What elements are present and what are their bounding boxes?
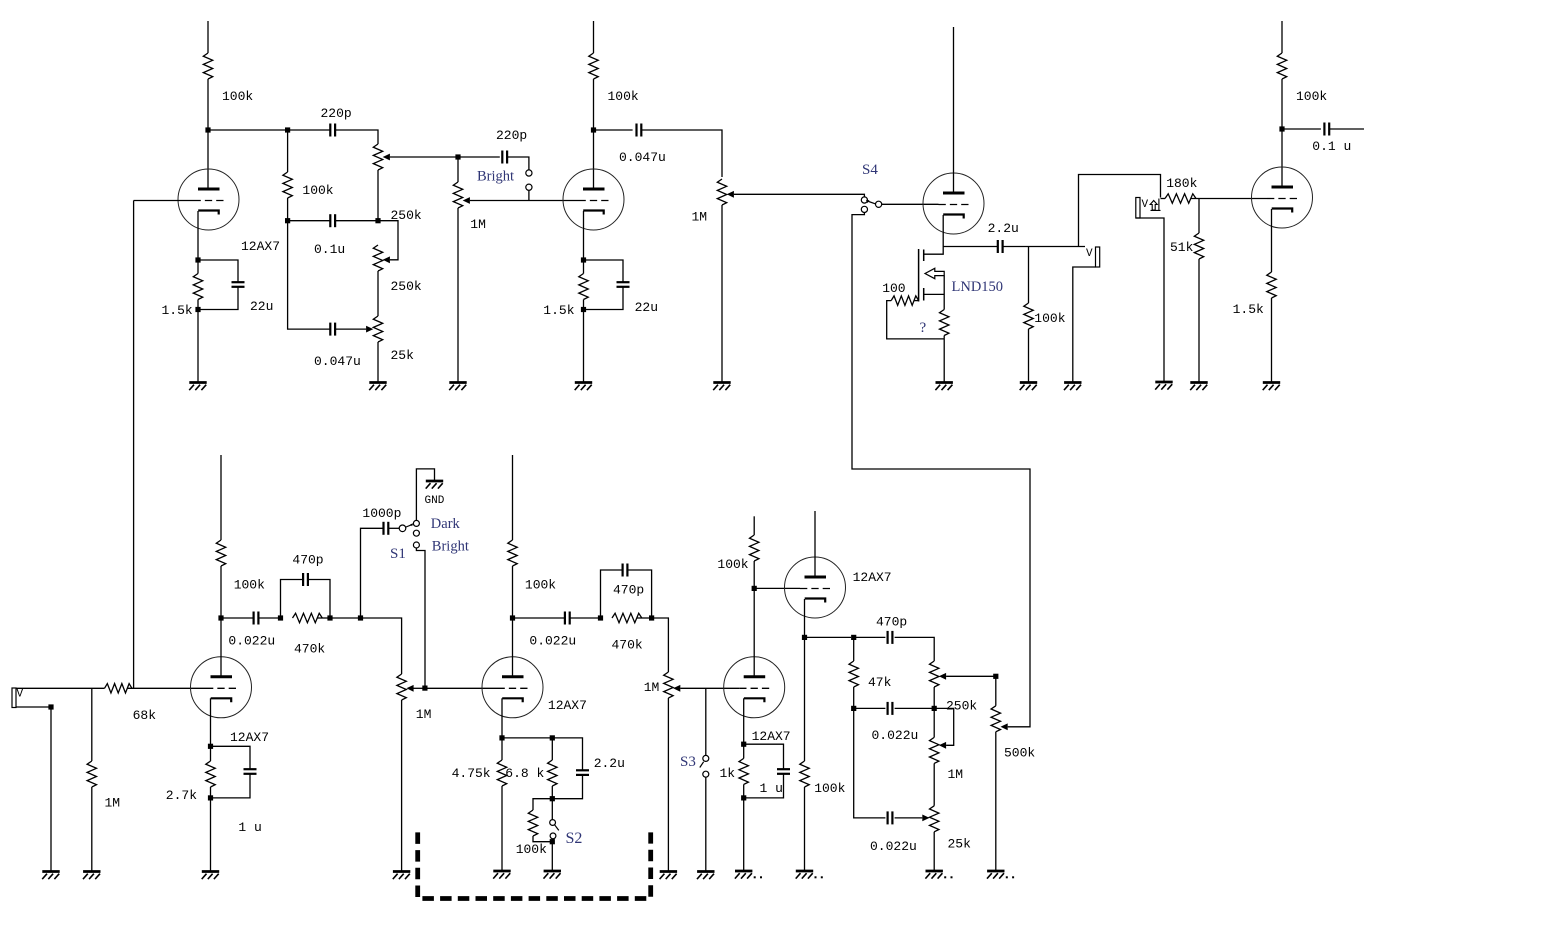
wire S3 top bbox=[705, 688, 707, 755]
potentiometer 25k tone mid bbox=[930, 806, 939, 832]
wire bbox=[943, 336, 945, 339]
node volume top bbox=[455, 154, 460, 159]
node slope bottom bbox=[285, 218, 290, 223]
wire 51k top bbox=[1198, 199, 1200, 234]
capacitor 0.1u bbox=[330, 214, 335, 227]
switch S4 throw upper bbox=[861, 197, 867, 203]
wire master to ground bbox=[721, 205, 723, 383]
wire to ground bbox=[91, 787, 93, 872]
resistor 100k follower load bbox=[800, 761, 809, 787]
ground input jack bbox=[42, 872, 60, 880]
wire bbox=[593, 79, 595, 130]
svg-text:Dark: Dark bbox=[431, 516, 461, 532]
wire to ground bbox=[551, 842, 553, 871]
node V4b plate bbox=[510, 615, 515, 620]
wire V2 cathode lead bbox=[942, 215, 944, 247]
svg-text:Bright: Bright bbox=[477, 169, 514, 185]
wiper arrow 1M tone bass bbox=[939, 742, 946, 749]
wire bbox=[895, 707, 935, 709]
wire to volume pot bbox=[361, 618, 402, 674]
triode V2 12AX7 bbox=[923, 173, 984, 234]
ground 1M V5a bbox=[660, 872, 678, 880]
ground tone stack bbox=[369, 383, 387, 391]
svg-text:250k: 250k bbox=[946, 699, 977, 714]
potentiometer 25k mid bbox=[373, 316, 382, 342]
capacitor 0.022u tone bass bbox=[888, 811, 893, 824]
wire bbox=[210, 787, 212, 798]
node tone top bbox=[851, 635, 856, 640]
switch S1 lever bbox=[410, 523, 413, 526]
ground return jack bbox=[1155, 382, 1173, 390]
capacitor 470p second bbox=[623, 564, 628, 577]
wire 1u top leg bbox=[211, 746, 251, 769]
wiper arrow 500k bbox=[1001, 723, 1008, 730]
svg-text:22u: 22u bbox=[250, 299, 273, 314]
ground S1 GND bbox=[426, 481, 444, 489]
svg-text:220p: 220p bbox=[321, 106, 352, 121]
svg-text:12AX7: 12AX7 bbox=[548, 698, 587, 713]
wire return jack sleeve bbox=[1136, 218, 1164, 382]
wiper arrow 1M V5a bbox=[673, 685, 680, 692]
potentiometer 1M volume ch1 bbox=[453, 182, 462, 208]
node S1 takeoff bbox=[358, 615, 363, 620]
svg-text:V: V bbox=[1086, 248, 1093, 260]
wire bbox=[637, 617, 652, 619]
wire bbox=[287, 198, 289, 221]
capacitor 0.022u coupling V4a bbox=[254, 612, 259, 625]
resistor 180k grid stop bbox=[1165, 194, 1196, 203]
potentiometer 250k tone treble bbox=[930, 661, 939, 687]
resistor 6.8k cathode bbox=[548, 760, 557, 786]
node V5b cathode bbox=[802, 635, 807, 640]
switch S1 throw middle bbox=[413, 530, 419, 536]
ground volume ch2 bbox=[393, 872, 411, 880]
wire pot to node bbox=[377, 170, 379, 221]
wire bbox=[551, 786, 553, 799]
capacitor 22u bypass V1a bbox=[232, 282, 245, 287]
wire output stub bbox=[1329, 128, 1364, 130]
wire bbox=[388, 527, 399, 529]
wiper arrow 25k mid bbox=[366, 326, 373, 333]
wire 470p right leg bbox=[308, 580, 330, 619]
wire B+ feed V4a bbox=[220, 455, 222, 540]
wire to ground bbox=[583, 310, 585, 383]
node volume wiper bbox=[422, 686, 427, 691]
capacitor 220p bright bbox=[502, 151, 507, 164]
svg-text:1.5k: 1.5k bbox=[1233, 302, 1264, 317]
svg-text:100: 100 bbox=[882, 281, 905, 296]
wire to 470p bbox=[854, 636, 886, 638]
ground follower bbox=[796, 871, 814, 879]
svg-text:100k: 100k bbox=[525, 578, 556, 593]
resistor 100k slope bbox=[283, 172, 292, 198]
svg-text:2.2u: 2.2u bbox=[988, 221, 1019, 236]
wire to ground bbox=[1198, 259, 1200, 383]
wire plate lead V3 bbox=[1281, 129, 1283, 187]
wire V4b cathode lead bbox=[501, 698, 503, 738]
resistor 1.5k cathode V3 bbox=[1267, 272, 1276, 298]
svg-text:470p: 470p bbox=[292, 553, 323, 568]
svg-text:4.75k: 4.75k bbox=[452, 766, 491, 781]
svg-text:2.2u: 2.2u bbox=[594, 756, 625, 771]
wire bbox=[318, 617, 331, 619]
wire to master pot bbox=[641, 130, 722, 177]
wire B+ stub V5a bbox=[753, 516, 755, 535]
switch S2 lever bbox=[555, 825, 559, 831]
node V5a cathode top bbox=[741, 742, 746, 747]
wire bass to mid pot bbox=[933, 763, 935, 805]
wire 2.2u to send jack bbox=[1003, 246, 1085, 248]
node V5a cathode bottom bbox=[741, 795, 746, 800]
svg-text:180k: 180k bbox=[1166, 176, 1197, 191]
resistor 100k plate V4a bbox=[216, 540, 225, 566]
svg-text:1M: 1M bbox=[948, 767, 964, 782]
wire bbox=[933, 708, 935, 737]
wire 100k load top bbox=[1028, 247, 1030, 304]
wire S1 Bright to volume wiper bbox=[416, 548, 425, 688]
wire treble wiper out bbox=[390, 156, 458, 158]
wire to bright cap bbox=[458, 156, 500, 158]
wire S4 pole to V2 grid bbox=[882, 203, 939, 205]
wire 470p2 left leg bbox=[601, 570, 623, 618]
wire bbox=[412, 687, 425, 689]
wire V4a cathode lead bbox=[210, 698, 212, 746]
ground 500k bbox=[987, 871, 1005, 879]
wire 470p to treble pot bbox=[895, 637, 935, 661]
wire 0.047u to mid wiper bbox=[335, 328, 366, 330]
wire bbox=[743, 784, 745, 798]
resistor 100k send load bbox=[1024, 303, 1033, 329]
svg-text:470k: 470k bbox=[612, 638, 643, 653]
triode V3 12AX7 bbox=[1252, 167, 1313, 228]
wire bbox=[551, 738, 553, 760]
switch S4 throw lower bbox=[861, 206, 867, 212]
wire plate lead V4a bbox=[220, 618, 222, 677]
wire 1M rheostat loop bbox=[934, 708, 954, 745]
svg-text:2.7k: 2.7k bbox=[166, 788, 197, 803]
wire to 0.022u mid bbox=[854, 707, 886, 709]
wiper arrow 1M master bbox=[727, 191, 734, 198]
wire 470p2 right leg bbox=[627, 570, 651, 618]
wire bbox=[570, 617, 601, 619]
switch S4 lever bbox=[866, 200, 870, 203]
wire to ground bbox=[943, 339, 945, 383]
wire send to return normal bbox=[1079, 175, 1161, 247]
capacitor 470p tone bbox=[888, 631, 893, 644]
switch S4 pole bbox=[876, 201, 882, 207]
potentiometer 250k treble bbox=[373, 144, 382, 170]
node V5a plate / V5b grid bbox=[752, 586, 757, 591]
svg-text:S3: S3 bbox=[680, 754, 696, 770]
wire V5b plate up bbox=[814, 511, 816, 577]
wire bbox=[197, 260, 199, 274]
wire bright switch to wiper line bbox=[528, 190, 530, 200]
svg-text:100k: 100k bbox=[814, 781, 845, 796]
node 6.8k top bbox=[550, 735, 555, 740]
wire B+ feed V3 bbox=[1281, 21, 1283, 53]
wire 500k to ground bbox=[995, 732, 997, 871]
ground 1M input bbox=[83, 872, 101, 880]
svg-text:0.022u: 0.022u bbox=[529, 634, 576, 649]
wire 1u bottom leg bbox=[211, 774, 251, 798]
wire to 1M pot bbox=[652, 618, 669, 672]
wire bbox=[501, 738, 503, 760]
capacitor 220p bbox=[330, 124, 335, 137]
resistor 2.7k cathode V4a bbox=[206, 761, 215, 787]
ground volume ch1 bbox=[449, 383, 467, 391]
node 470k right bbox=[327, 615, 332, 620]
resistor 100k plate V1b bbox=[589, 53, 598, 79]
wire bbox=[743, 744, 745, 758]
capacitor 22u bypass V1b bbox=[617, 282, 630, 287]
wire to ground bbox=[501, 786, 503, 871]
ground S2 bbox=[544, 871, 562, 879]
svg-text:1000p: 1000p bbox=[362, 506, 401, 521]
wire plate lead V4b bbox=[512, 618, 514, 677]
wire bbox=[220, 566, 222, 618]
svg-text:1M: 1M bbox=[416, 707, 432, 722]
wire bbox=[753, 561, 755, 588]
ground 51k bbox=[1190, 383, 1208, 391]
wire to 220p bbox=[288, 129, 331, 131]
svg-text:0.1 u: 0.1 u bbox=[1312, 139, 1351, 154]
svg-text:470p: 470p bbox=[613, 583, 644, 598]
wire input sleeve bbox=[16, 706, 51, 708]
wire V3 out bbox=[1282, 128, 1321, 130]
ground S3 bbox=[697, 872, 715, 880]
switch S1 pole bbox=[399, 525, 406, 532]
svg-text:12AX7: 12AX7 bbox=[853, 570, 892, 585]
wire 1M input top bbox=[91, 688, 93, 761]
wire volume wiper to V1b grid bbox=[470, 200, 579, 202]
wire to 0.047u bbox=[288, 221, 331, 329]
wire 68k to V4a grid bbox=[128, 687, 207, 689]
svg-text:47k: 47k bbox=[868, 675, 892, 690]
wire to ground bbox=[210, 798, 212, 872]
resistor 470k bbox=[293, 613, 323, 622]
svg-text:100k: 100k bbox=[516, 842, 547, 857]
wiper arrow 25k tone mid bbox=[922, 815, 929, 822]
node V1b plate bbox=[591, 127, 596, 132]
node treble bottom bbox=[932, 706, 937, 711]
svg-text:68k: 68k bbox=[133, 708, 157, 723]
capacitor 470p bbox=[303, 573, 308, 586]
wire input tip bbox=[16, 687, 105, 689]
wire treble wiper to 500k bbox=[946, 675, 996, 677]
wire B+ feed V1a bbox=[207, 21, 209, 53]
resistor 1M input bbox=[87, 761, 96, 787]
capacitor 1u bypass V5a bbox=[777, 769, 790, 774]
svg-text:100k: 100k bbox=[717, 557, 748, 572]
capacitor 0.047u coupling bbox=[637, 124, 642, 137]
wire 2.2u top leg bbox=[552, 738, 582, 770]
svg-text:100k: 100k bbox=[1034, 311, 1065, 326]
svg-text:12AX7: 12AX7 bbox=[752, 729, 791, 744]
wire coupling out V1b bbox=[594, 129, 633, 131]
wire V1a grid out left bbox=[134, 200, 194, 202]
resistor 1.5k cathode V1a bbox=[193, 274, 202, 300]
node V3 plate bbox=[1279, 126, 1284, 131]
node 470k2 right bbox=[649, 615, 654, 620]
svg-text:1 u: 1 u bbox=[238, 820, 261, 835]
capacitor 2.2u bypass bbox=[576, 770, 589, 775]
wiper arrow 250k treble bbox=[383, 154, 390, 161]
potentiometer 500k tone bbox=[991, 706, 1000, 732]
node treble/bass bbox=[375, 218, 380, 223]
wire 470p left leg bbox=[281, 580, 304, 619]
svg-text:LND150: LND150 bbox=[952, 279, 1004, 295]
wire plate resistor to node bbox=[207, 79, 209, 130]
wiper arrow 1M volume ch2 bbox=[406, 685, 413, 692]
svg-text:100k: 100k bbox=[302, 183, 333, 198]
resistor 1k cathode V5a bbox=[739, 758, 748, 784]
wire volume to ground bbox=[457, 208, 459, 383]
wire V1a cathode lead bbox=[197, 211, 199, 260]
wire bright cap to switch bbox=[507, 157, 529, 170]
node 100k/220p bbox=[285, 127, 290, 132]
wire bbox=[933, 687, 935, 708]
svg-text:100k: 100k bbox=[234, 578, 265, 593]
triode V4b 12AX7 bbox=[482, 657, 543, 718]
triode V5b 12AX7 bbox=[785, 557, 846, 618]
triode V1a 12AX7 bbox=[178, 169, 239, 230]
svg-text:1 u: 1 u bbox=[760, 781, 783, 796]
svg-text:?: ? bbox=[920, 320, 927, 336]
wire bbox=[552, 839, 554, 841]
wire bbox=[583, 260, 585, 274]
wire to ground bbox=[933, 832, 935, 871]
svg-text:500k: 500k bbox=[1004, 746, 1035, 761]
node V4b cathode bbox=[499, 735, 504, 740]
wire gate return loop bbox=[887, 301, 945, 339]
wire to 0.1u bbox=[288, 220, 331, 222]
svg-text:1M: 1M bbox=[692, 210, 708, 225]
svg-text:1.5k: 1.5k bbox=[162, 303, 193, 318]
wire wiper to V5a grid bbox=[680, 687, 739, 689]
node V1b cathode bottom bbox=[581, 307, 586, 312]
capacitor 0.047u bbox=[330, 323, 335, 336]
svg-text:0.047u: 0.047u bbox=[619, 150, 666, 165]
wire cathode rail bbox=[502, 737, 552, 739]
svg-text:220p: 220p bbox=[496, 128, 527, 143]
wire 220p to pot top bbox=[335, 130, 378, 144]
wire V2 plate up bbox=[953, 27, 955, 193]
svg-text:V: V bbox=[17, 689, 24, 701]
wire 100k follower top bbox=[804, 637, 806, 761]
svg-text:0.1u: 0.1u bbox=[314, 242, 345, 257]
svg-text:GND: GND bbox=[425, 495, 445, 507]
wire plate lead V1a bbox=[207, 130, 209, 189]
svg-text:470p: 470p bbox=[876, 615, 907, 630]
switch S1 throw Bright bbox=[413, 542, 419, 548]
resistor 100k S2 bbox=[528, 810, 537, 836]
switch S3 contact upper bbox=[703, 755, 709, 761]
wire 22u top leg bbox=[198, 260, 238, 282]
wiper arrow 1M volume bbox=[463, 197, 470, 204]
capacitor 0.022u coupling V4b bbox=[565, 612, 570, 625]
wire V1b cathode lead bbox=[583, 211, 585, 260]
svg-text:S2: S2 bbox=[566, 830, 583, 847]
switch S3 contact lower bbox=[703, 771, 709, 777]
svg-text:100k: 100k bbox=[1296, 89, 1327, 104]
wire bbox=[287, 130, 289, 172]
node V1b cathode top bbox=[581, 257, 586, 262]
wire S2 top bbox=[551, 799, 553, 820]
node 47k bottom bbox=[851, 706, 856, 711]
wire to ground bbox=[804, 787, 806, 871]
wire bbox=[1281, 79, 1283, 129]
wire 250k bass rheostat loop bbox=[378, 221, 398, 260]
ground V1a cathode bbox=[189, 383, 207, 391]
wire bbox=[512, 566, 514, 618]
switch S3 lever bbox=[700, 762, 704, 768]
wire pot to ground bbox=[667, 698, 669, 872]
wire to ground bbox=[1271, 298, 1273, 383]
wire bbox=[197, 300, 199, 310]
wire plate lead V1b bbox=[593, 130, 595, 189]
svg-text:1M: 1M bbox=[644, 680, 660, 695]
svg-text:100k: 100k bbox=[608, 89, 639, 104]
wiper arrow 250k bass bbox=[383, 256, 390, 263]
resistor 100k plate V1a bbox=[203, 53, 212, 79]
potentiometer 1M tone bass bbox=[930, 737, 939, 763]
svg-text:12AX7: 12AX7 bbox=[230, 730, 269, 745]
node V1a cathode bottom bbox=[195, 307, 200, 312]
svg-text:0.022u: 0.022u bbox=[228, 634, 275, 649]
wire to V5b grid bbox=[754, 587, 800, 589]
wire V3 cathode lead bbox=[1271, 209, 1273, 272]
capacitor 0.1u output bbox=[1324, 123, 1329, 136]
wire 100k bottom bbox=[533, 836, 552, 842]
wire to ground bbox=[377, 342, 379, 383]
wire 1u bottom leg bbox=[744, 774, 784, 798]
wire bbox=[258, 617, 280, 619]
wire to 0.022u bbox=[513, 617, 565, 619]
switch S1 throw Dark bbox=[413, 520, 419, 526]
connector return jack V bbox=[1136, 198, 1140, 219]
resistor 100k plate V5a bbox=[750, 535, 759, 561]
resistor 1.5k cathode V1b bbox=[579, 274, 588, 300]
wire bbox=[853, 687, 855, 708]
wire B+ feed V4b bbox=[512, 455, 514, 540]
svg-text:1k: 1k bbox=[720, 766, 736, 781]
triode V1b 12AX7 bbox=[563, 169, 624, 230]
ground V3 cathode bbox=[1263, 383, 1281, 391]
wire to 0.022u bbox=[221, 617, 254, 619]
bright switch contact upper bbox=[526, 170, 532, 176]
wire bbox=[335, 220, 378, 222]
svg-text:S1: S1 bbox=[390, 546, 406, 562]
wire S4 lower throw to 500k wiper bbox=[852, 213, 1030, 727]
wire mid wiper to 0.022u bbox=[895, 817, 923, 819]
node 500k top bbox=[993, 674, 998, 679]
capacitor 1u bypass V4a bbox=[244, 769, 257, 774]
resistor 100k plate V4b bbox=[508, 540, 517, 566]
wire S1 to GND symbol bbox=[416, 469, 434, 520]
ground send jack bbox=[1064, 383, 1082, 391]
svg-text:Bright: Bright bbox=[432, 539, 469, 555]
wire 22u bottom leg bbox=[198, 287, 238, 310]
wire gate lead bbox=[914, 300, 918, 302]
capacitor 2.2u send bbox=[998, 240, 1003, 253]
node 470k left bbox=[278, 615, 283, 620]
wire to ground bbox=[1028, 329, 1030, 383]
wire 2.2u bottom leg bbox=[552, 775, 582, 799]
resistor 100k plate V3 bbox=[1277, 53, 1286, 79]
wire bbox=[1161, 198, 1166, 200]
switch S2 contact lower bbox=[550, 833, 556, 839]
wire 1u top leg bbox=[744, 744, 784, 769]
